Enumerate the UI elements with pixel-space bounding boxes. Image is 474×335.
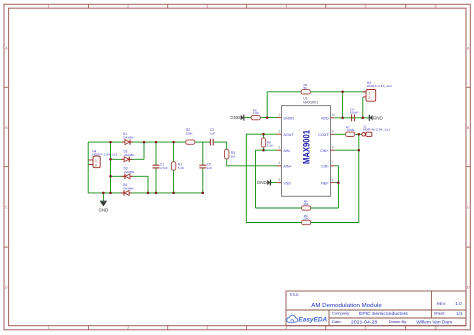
frame ticks bottom [89, 326, 406, 330]
wire D3 row [111, 175, 149, 177]
pin 8 CIN+ [331, 149, 335, 151]
svg-text:9: 9 [332, 130, 334, 134]
svg-text:HDR-F-2.54_1x2: HDR-F-2.54_1x2 [92, 153, 117, 157]
junction top rail / R1 [172, 141, 175, 144]
svg-text:5.1K: 5.1K [267, 143, 273, 147]
wire R5 rail to VDD drop [342, 92, 344, 118]
svg-text:EPIC Semiconductors: EPIC Semiconductors [359, 311, 409, 316]
svg-text:3: 3 [206, 5, 208, 9]
svg-text:1.5K: 1.5K [253, 111, 259, 115]
wire REF row [335, 182, 339, 184]
svg-text:GND: GND [257, 180, 268, 185]
svg-text:COUT: COUT [318, 133, 329, 137]
pin 9 COUT [331, 133, 335, 135]
svg-text:1N4148W: 1N4148W [123, 187, 134, 191]
wire COUT row [335, 133, 362, 135]
frame ticks left [4, 87, 9, 247]
svg-text:AM Demodulation Module: AM Demodulation Module [311, 303, 382, 309]
wire R4 row [256, 207, 339, 209]
svg-text:REV:: REV: [437, 301, 446, 306]
wire C5 bottom lead [202, 168, 204, 193]
junction CIN+ / feedback vertical [358, 149, 361, 152]
diode D2 1N4148W [121, 149, 134, 162]
svg-text:7: 7 [332, 161, 334, 165]
pin 10 VDD [331, 117, 335, 119]
junction R5 rail / VDD drop [341, 91, 344, 94]
svg-text:1: 1 [279, 113, 281, 117]
gnd net flag at VSS [257, 180, 271, 186]
wire SHDN to R5 riser [266, 92, 268, 118]
wire R3 bottom to AIN+ pin [227, 159, 278, 166]
wire SHDN row [244, 117, 277, 119]
svg-text:GND: GND [230, 115, 241, 120]
frame ticks right [466, 87, 470, 247]
junction COUT / J1 / feedback [358, 133, 361, 136]
resistor R2 100K [186, 128, 195, 144]
svg-text:Date:: Date: [332, 319, 342, 324]
wire H3 pin2 drop [362, 97, 364, 118]
junction bottom rail / gnd tap [102, 192, 105, 195]
svg-text:100R: 100R [347, 128, 355, 132]
capacitor C2 1nF [210, 128, 215, 145]
junction top rail / C1 [155, 141, 158, 144]
svg-text:4: 4 [285, 5, 287, 9]
resistor R1 5.1K [171, 162, 184, 170]
gnd net flag right of C4 [369, 115, 383, 121]
junction bottom rail / R1 [172, 192, 175, 195]
svg-text:4: 4 [285, 326, 287, 330]
svg-text:2021-04-28: 2021-04-28 [351, 319, 378, 324]
svg-text:1.0: 1.0 [455, 301, 462, 306]
svg-text:MAX9001: MAX9001 [302, 130, 312, 164]
svg-text:1: 1 [48, 326, 50, 330]
wire R8 bottom lead [263, 147, 265, 150]
wire VSS gnd stub [271, 182, 277, 184]
wire R9 row [246, 222, 358, 224]
svg-text:1M: 1M [231, 155, 236, 159]
svg-text:GND: GND [99, 207, 109, 212]
resistor R9 20K [302, 214, 311, 225]
wire CIN+ row [335, 149, 359, 151]
svg-text:5.1K: 5.1K [178, 166, 184, 170]
wire R8 top lead [263, 134, 265, 138]
capacitor C1 4.7nF [153, 162, 168, 170]
svg-text:AIN+: AIN+ [283, 165, 291, 169]
svg-text:AOUT: AOUT [283, 133, 294, 137]
wire feedback vertical right [358, 134, 360, 222]
header H3 HDR-F-2.54_1x2 [363, 81, 392, 101]
svg-text:3: 3 [279, 146, 281, 150]
svg-text:20K: 20K [303, 217, 308, 221]
pin 6 REF [331, 182, 335, 184]
pin 1 SHDN [277, 117, 281, 119]
resistor R4 10K [302, 199, 311, 210]
svg-text:MAX9001: MAX9001 [303, 101, 318, 105]
resistor R5 5K [301, 83, 310, 94]
svg-text:Willem Van Dam: Willem Van Dam [416, 319, 452, 324]
junction bottom rail / V2 [109, 192, 112, 195]
svg-text:Drawn By:: Drawn By: [389, 319, 407, 324]
wire D3 anode drop [147, 176, 149, 193]
frame row letters left [5, 47, 8, 290]
svg-text:1nF: 1nF [210, 132, 215, 136]
wire D2 cathode riser [143, 142, 145, 159]
diode D3 1N4148W (pointing left) [121, 166, 134, 179]
wire top rail between R2 and C2 [195, 141, 211, 143]
ground symbol below bottom rail [99, 201, 109, 212]
svg-text:1N4148W: 1N4148W [124, 170, 135, 174]
svg-text:4: 4 [279, 161, 281, 165]
frame row letters right [467, 47, 470, 290]
pin 7 CIN- [331, 165, 335, 167]
svg-text:100K: 100K [186, 132, 193, 136]
diode D4 1N4148W (pointing left) [121, 183, 134, 196]
wire AOUT row and left drop [246, 134, 277, 222]
svg-text:2: 2 [368, 96, 370, 100]
svg-text:Sheet:: Sheet: [434, 311, 446, 316]
svg-text:VSS: VSS [283, 181, 291, 185]
diode D1 1N4148W [122, 132, 134, 145]
svg-text:1: 1 [368, 91, 370, 95]
junction VDD rail / H3 pin2 drop [362, 117, 365, 120]
header H4 HDR-F-2.54_1x2 [88, 149, 117, 167]
svg-text:6: 6 [332, 178, 334, 182]
svg-text:3: 3 [206, 326, 208, 330]
svg-text:VDD: VDD [321, 116, 329, 120]
svg-text:10: 10 [332, 113, 336, 117]
pin 5 VSS [277, 182, 281, 184]
svg-text:CIN+: CIN+ [320, 149, 329, 153]
wire C1 bottom lead [155, 168, 157, 193]
svg-text:C: C [5, 205, 8, 209]
svg-text:CIN-: CIN- [321, 165, 329, 169]
wire C1 top lead [155, 142, 157, 165]
wire R1 leads [173, 142, 175, 162]
svg-text:6: 6 [435, 326, 437, 330]
svg-text:AIN-: AIN- [283, 149, 291, 153]
op-amp/comparator U1 MAX9001 [277, 97, 335, 197]
svg-text:8: 8 [332, 146, 334, 150]
frame column numbers bottom [48, 326, 437, 330]
svg-text:C: C [467, 205, 470, 209]
pin 2 AOUT [277, 133, 281, 135]
svg-text:2: 2 [279, 130, 281, 134]
svg-text:EasyEDA: EasyEDA [298, 317, 327, 324]
junction bottom rail / C1 [155, 192, 158, 195]
frame ticks top [89, 4, 406, 8]
resistor R3 1M [225, 149, 236, 159]
wire C5 top lead [202, 142, 204, 165]
frame column numbers top [48, 5, 437, 9]
svg-text:1nF: 1nF [207, 166, 212, 170]
svg-text:1: 1 [48, 5, 50, 9]
capacitor C5 1nF [199, 162, 212, 170]
junction V2 / D3 row [109, 175, 112, 178]
junction top rail / V2 [109, 141, 112, 144]
svg-text:TITLE:: TITLE: [289, 293, 299, 297]
svg-text:1N4148W: 1N4148W [123, 136, 134, 140]
svg-text:1N4148W: 1N4148W [124, 153, 135, 157]
pin 3 AIN- [277, 149, 281, 151]
wire D2 row [111, 158, 145, 160]
svg-text:10K: 10K [303, 202, 308, 206]
junction VDD rail / riser [341, 117, 344, 120]
junction AIN- / R8 bottom [262, 149, 265, 152]
wire bottom rail [88, 192, 203, 194]
svg-text:GND: GND [373, 115, 384, 120]
EasyEDA logo [287, 315, 328, 323]
junction top rail / D2 riser [143, 141, 146, 144]
svg-text:5: 5 [365, 326, 367, 330]
wire GND stub below bottom rail [102, 193, 104, 201]
connector J1 HDR-M-2.54_1x1 [362, 124, 391, 136]
wire C2 to R3 corner [213, 142, 226, 149]
svg-text:100nF: 100nF [350, 110, 359, 114]
svg-text:6: 6 [435, 5, 437, 9]
wire R5 rail [267, 91, 366, 93]
svg-text:5: 5 [279, 178, 281, 182]
svg-text:HDR-F-2.54_1x2: HDR-F-2.54_1x2 [367, 84, 392, 88]
svg-text:Company:: Company: [332, 311, 350, 316]
resistor R7 100R [346, 125, 355, 136]
junction SHDN / R5 riser [266, 116, 269, 119]
svg-text:1: 1 [95, 159, 97, 163]
svg-text:1/1: 1/1 [456, 311, 463, 316]
wire left vertical input bus [87, 142, 89, 193]
svg-text:REF: REF [321, 181, 329, 185]
junction AOUT / R8 top [262, 133, 265, 136]
junction V2 / D2 row [109, 158, 112, 161]
svg-text:4.7nF: 4.7nF [160, 166, 168, 170]
svg-text:D: D [467, 285, 470, 289]
svg-text:SHDN: SHDN [283, 116, 294, 120]
svg-text:HDR-M-2.54_1x1: HDR-M-2.54_1x1 [363, 127, 390, 131]
svg-text:5: 5 [365, 5, 367, 9]
resistor R6 1.5K [251, 108, 260, 120]
junction CIN- drop / REF [337, 181, 340, 184]
wire AIN- row and left drop [256, 150, 278, 208]
wire VDD rail [335, 117, 369, 119]
wire CIN- row and drop [335, 166, 339, 208]
svg-text:D: D [5, 285, 8, 289]
wire vertical node V2 [110, 142, 112, 193]
wire top rail [88, 141, 186, 143]
svg-text:2: 2 [127, 326, 129, 330]
pin 4 AIN+ [277, 165, 281, 167]
svg-text:5K: 5K [304, 86, 308, 90]
capacitor C4 100nF [350, 107, 359, 121]
junction bottom rail / D3 drop [147, 192, 150, 195]
gnd net flag at SHDN (left) [230, 115, 244, 121]
junction bottom rail / C5 [202, 192, 205, 195]
resistor R8 5.1K [261, 138, 273, 148]
svg-text:2: 2 [127, 5, 129, 9]
svg-text:2: 2 [95, 164, 97, 168]
